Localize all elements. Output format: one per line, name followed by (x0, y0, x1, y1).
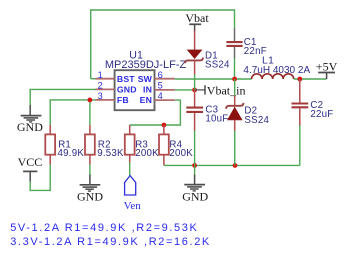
junction FB node (88, 98, 93, 103)
inductor L1 (243, 56, 310, 79)
svg-text:GND: GND (117, 85, 137, 95)
power port VCC (18, 155, 43, 181)
svg-text:GND: GND (17, 120, 43, 134)
svg-text:1: 1 (98, 70, 103, 80)
svg-text:4.7uH 4030 2A: 4.7uH 4030 2A (243, 65, 310, 76)
resistor R1 (45, 125, 84, 164)
svg-text:Vbat_in: Vbat_in (207, 83, 246, 97)
wire SW to D2 (234, 79, 236, 96)
ground GND2 under R2 (80, 175, 101, 192)
net label Vbat_in (195, 83, 246, 97)
svg-text:3.3V-1.2A R1=49.9K ,R2=16.2K: 3.3V-1.2A R1=49.9K ,R2=16.2K (10, 236, 211, 248)
wire C2 to ground rail (299, 125, 301, 165)
pin 5 IN (143, 81, 175, 95)
ground GND3 middle (184, 175, 205, 191)
diode D2 SS24 (freewheel, cathode up) (226, 96, 269, 132)
svg-text:GND: GND (77, 190, 103, 204)
wire top BST-to-C1 (91, 10, 235, 79)
wire GND stub (194, 165, 196, 174)
pin 4 EN (140, 91, 175, 105)
wire pin1 BST join (91, 78, 97, 80)
wire C1 to SW rail (234, 58, 236, 79)
svg-text:4: 4 (158, 91, 163, 101)
svg-text:EN: EN (140, 95, 152, 105)
junction output node (297, 77, 302, 82)
junction D2 bottom node (233, 163, 238, 168)
wire C3 to ground rail (194, 131, 196, 166)
svg-text:Ven: Ven (124, 200, 142, 212)
svg-text:SS24: SS24 (205, 60, 230, 71)
pin 6 SW (138, 70, 175, 84)
svg-text:BST: BST (117, 74, 135, 84)
junction EN/R4 node (162, 123, 167, 128)
wire R3 to Ven (129, 162, 131, 176)
svg-text:GND: GND (182, 190, 208, 204)
svg-text:49.9K: 49.9K (58, 148, 85, 159)
capacitor C3 (186, 90, 228, 131)
junction C3/GND node (192, 163, 197, 168)
ground GND1 left (21, 105, 42, 122)
IC U1 MP2359DJ-LF-Z (105, 50, 187, 110)
pin 1 BST (96, 70, 136, 84)
svg-text:VCC: VCC (18, 155, 43, 169)
svg-text:200K: 200K (135, 148, 159, 159)
wire R1 bottom to VCC (30, 164, 50, 190)
svg-text:IN: IN (143, 85, 152, 95)
svg-text:Vbat: Vbat (185, 11, 209, 25)
wire SW rail (175, 78, 252, 80)
wire ground rail bottom (164, 164, 300, 166)
wire D2 to ground rail (234, 131, 236, 166)
resistor R4 (159, 125, 193, 165)
svg-text:5: 5 (158, 81, 163, 91)
wire EN to divider (130, 100, 181, 125)
svg-text:9.53K: 9.53K (97, 148, 124, 159)
resistor R3 (125, 125, 159, 163)
capacitor C2 (292, 79, 334, 126)
svg-text:5V-1.2A R1=49.9K ,R2=9.53K: 5V-1.2A R1=49.9K ,R2=9.53K (10, 222, 198, 234)
wire R2 bottom to ground (89, 164, 91, 174)
svg-text:22uF: 22uF (310, 109, 333, 120)
resistor R2 (85, 125, 124, 164)
svg-text:FB: FB (117, 95, 129, 105)
svg-text:2: 2 (98, 81, 103, 91)
capacitor C1 (226, 29, 266, 59)
svg-text:3: 3 (98, 91, 103, 101)
wire L1 to output (294, 78, 327, 80)
svg-text:+5V: +5V (316, 60, 338, 74)
power port +5V (316, 60, 338, 79)
junction SW node (232, 77, 237, 82)
svg-text:10uF: 10uF (205, 113, 228, 124)
svg-text:200K: 200K (169, 148, 193, 159)
wire IN rail (175, 89, 195, 91)
wire pin2 GND to ground (30, 89, 96, 105)
pin 2 GND (96, 81, 137, 95)
junction Vbat_in node (192, 88, 197, 93)
svg-text:SS24: SS24 (244, 115, 269, 126)
power port Vbat (185, 11, 209, 31)
svg-text:6: 6 (158, 70, 163, 80)
node Ven hierarchical label (124, 176, 142, 213)
pin 3 FB (96, 91, 129, 105)
wire D1 to Vbat_in (crosses SW rail) (194, 74, 196, 90)
wire pin3 FB to R1 (50, 100, 96, 125)
wire FB junction down to R2 (89, 100, 91, 125)
svg-text:SW: SW (138, 74, 153, 84)
svg-text:MP2359DJ-LF-Z: MP2359DJ-LF-Z (105, 59, 187, 71)
diode D1 SS24 (185, 31, 230, 75)
